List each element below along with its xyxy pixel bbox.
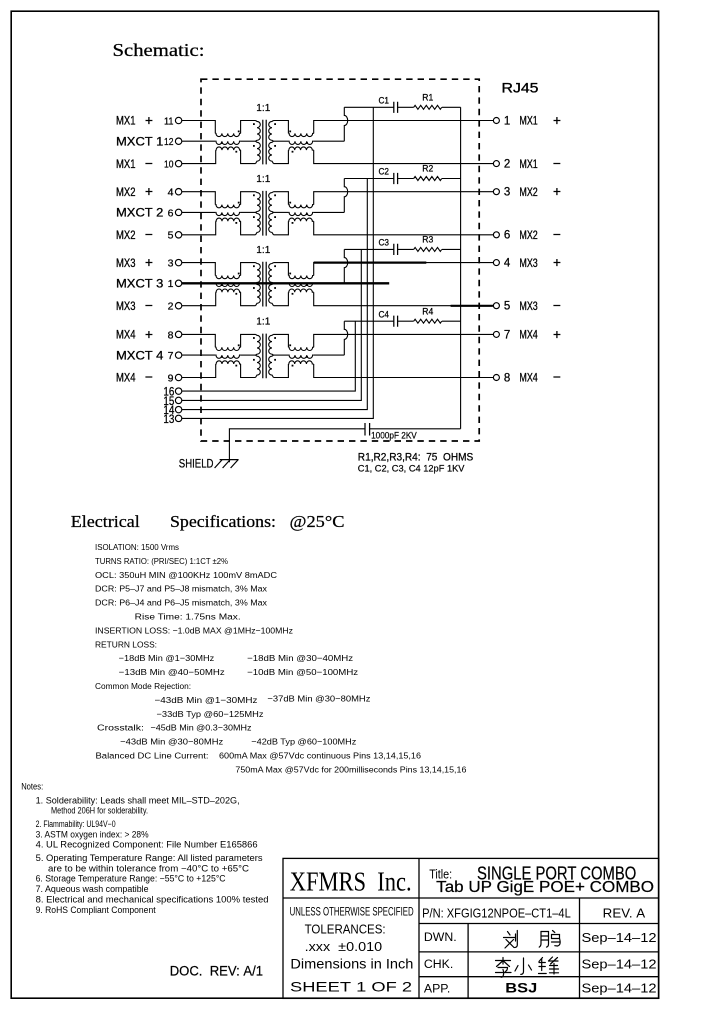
wire secondary top to choke	[274, 334, 289, 347]
wire secondary center tap to choke	[274, 140, 289, 142]
polarity dots transformer T1	[221, 123, 308, 152]
wire capacitor to shield	[229, 429, 365, 463]
pin 12 terminal (MXCT 1)	[164, 136, 182, 148]
svg-text:4: 4	[168, 187, 174, 199]
wire MX3+ input to choke	[182, 263, 215, 276]
svg-text:DOC. REV: A/1: DOC. REV: A/1	[170, 964, 263, 979]
svg-text:−45dB Min @0.3−30MHz: −45dB Min @0.3−30MHz	[151, 723, 252, 733]
wire choke center to primary center tap	[241, 282, 256, 284]
wire C4 to R4	[398, 320, 414, 322]
svg-text:R2: R2	[422, 164, 433, 174]
wire secondary center tap to choke	[274, 354, 289, 356]
transformer T4 secondary winding lower half	[269, 355, 274, 377]
svg-text:3: 3	[504, 187, 510, 199]
svg-text:TOLERANCES:: TOLERANCES:	[305, 921, 386, 936]
choke T3 secondary-side bottom winding	[288, 289, 313, 292]
wire C2 to R2	[398, 178, 414, 180]
label pin 6 MX2 −	[504, 227, 561, 242]
transformer T4 core	[263, 334, 266, 379]
svg-text:Notes:: Notes:	[21, 782, 43, 792]
svg-text:MX3: MX3	[519, 301, 537, 313]
svg-text:10: 10	[164, 159, 174, 171]
wire C3 to R3	[398, 248, 414, 250]
label pin 8 MX4 −	[504, 370, 561, 385]
transformer T1 secondary winding upper half	[269, 121, 274, 142]
svg-text:R3: R3	[422, 235, 433, 245]
heading Electrical Specifications @25C	[71, 512, 345, 531]
svg-text:750mA Max @57Vdc for 200millis: 750mA Max @57Vdc for 200milliseconds Pin…	[235, 764, 466, 774]
signature checked-by (Chinese characters)	[496, 957, 559, 977]
pin 2 terminal (MX3 −)	[168, 301, 182, 313]
wire R3 to common bus	[442, 248, 461, 250]
svg-text:+: +	[145, 184, 153, 199]
wire rail CH3 to capacitor C3	[344, 248, 394, 250]
pin 1 RJ45 terminal (MX1 +)	[493, 118, 499, 124]
svg-text:+: +	[145, 113, 153, 128]
wire secondary top to choke	[274, 192, 289, 205]
choke T3 primary-side center winding	[215, 283, 240, 286]
svg-text:P/N: XFGIG12NPOE–CT1–4L: P/N: XFGIG12NPOE–CT1–4L	[422, 907, 571, 921]
choke T3 primary-side bottom winding	[216, 289, 241, 292]
wire secondary center tap to riser	[314, 282, 345, 284]
svg-text:MXCT 4: MXCT 4	[116, 350, 164, 362]
pin 4 RJ45 terminal (MX3 +)	[493, 260, 499, 266]
svg-text:@25°C: @25°C	[290, 512, 345, 531]
wire center-tap bus CH3 down to pin 15	[182, 249, 361, 400]
choke T4 primary-side center winding	[215, 355, 240, 358]
wire secondary-choke top to RJ45 pin 1	[314, 121, 494, 134]
transformer T3 secondary winding lower half	[269, 283, 274, 305]
svg-text:MXCT 2: MXCT 2	[116, 208, 163, 220]
wire rail CH1 to capacitor C1	[344, 106, 394, 108]
svg-text:1:1: 1:1	[256, 316, 270, 328]
wire MXCT4 input to choke	[182, 354, 215, 356]
label pin 2 MX1 −	[504, 156, 561, 171]
resistor R2	[414, 177, 442, 181]
capacitor C2	[394, 173, 398, 184]
svg-text:9. RoHS Compliant Component: 9. RoHS Compliant Component	[36, 905, 157, 915]
pin 5 terminal (MX2 −)	[168, 230, 182, 242]
transformer T3 core	[263, 262, 266, 307]
svg-text:C4: C4	[379, 309, 390, 319]
wire R1 to common bus	[442, 106, 461, 108]
wire secondary-choke top to RJ45 pin 4	[314, 263, 494, 276]
svg-text:Sep–14–12: Sep–14–12	[582, 957, 657, 972]
wire MX1+ input to choke	[182, 121, 215, 134]
capacitor C4	[394, 316, 398, 327]
svg-text:XFMRS Inc.: XFMRS Inc.	[290, 866, 412, 896]
pin 8 terminal (MX4 +)	[168, 329, 182, 341]
transformer T2 core	[263, 191, 266, 236]
wire center-tap bus CH2 down to pin 14	[182, 179, 367, 410]
capacitor 1000pF 2KV	[365, 423, 370, 436]
wire center-tap riser CH1 with hop over pin wire	[344, 107, 347, 141]
wire secondary bottom to choke	[274, 364, 289, 378]
svg-text:6: 6	[504, 230, 510, 242]
svg-text:7. Aqueous wash compatible: 7. Aqueous wash compatible	[36, 884, 149, 894]
pin 16 terminal (center tap CH4)	[163, 387, 181, 399]
pin 3 terminal (MX3 +)	[168, 258, 182, 270]
wire MX2+ input to choke	[182, 192, 215, 205]
choke T4 secondary-side bottom winding	[288, 361, 313, 364]
svg-text:MX2: MX2	[116, 187, 136, 199]
wire MX4− input to choke	[182, 364, 216, 378]
wire common termination bus (right vertical)	[460, 107, 462, 429]
svg-text:.xxx ±0.010: .xxx ±0.010	[305, 940, 383, 954]
pin 6 RJ45 terminal (MX2 −)	[493, 232, 499, 238]
svg-text:MX1: MX1	[519, 159, 537, 171]
svg-text:−: −	[145, 370, 153, 385]
pin 2 RJ45 terminal (MX1 −)	[493, 161, 499, 167]
transformer T2 primary winding lower half	[256, 212, 261, 234]
transformer T1 secondary winding lower half	[269, 141, 274, 163]
wire secondary-choke top to RJ45 pin 3	[314, 192, 494, 205]
svg-text:−: −	[553, 370, 561, 385]
svg-text:REV. A: REV. A	[603, 907, 646, 921]
svg-text:MX1: MX1	[116, 159, 136, 171]
pin 14 terminal (center tap CH2)	[163, 405, 181, 417]
svg-text:Sep–14–12: Sep–14–12	[582, 930, 657, 945]
choke T1 secondary-side top winding	[288, 133, 313, 136]
label pin 5 MX3 −	[504, 298, 561, 313]
label MX1 − input	[116, 156, 153, 171]
choke T1 primary-side center winding	[215, 141, 240, 144]
svg-text:12: 12	[164, 136, 174, 148]
svg-text:C2: C2	[379, 167, 390, 177]
choke T2 primary-side top winding	[215, 205, 240, 208]
label pin 7 MX4 +	[504, 327, 561, 342]
wire center-tap bus CH1 down to pin 13	[182, 107, 373, 418]
choke T4 secondary-side top winding	[288, 347, 313, 350]
svg-text:MX4: MX4	[519, 373, 538, 385]
svg-text:5: 5	[504, 301, 510, 313]
transformer T1 primary winding lower half	[256, 141, 261, 163]
wire secondary bottom to choke	[274, 221, 289, 235]
svg-text:C1, C2, C3, C4 12pF 1KV: C1, C2, C3, C4 12pF 1KV	[358, 464, 465, 475]
svg-text:5. Operating Temperature Range: 5. Operating Temperature Range: All list…	[36, 853, 264, 863]
svg-text:1:1: 1:1	[256, 244, 270, 256]
choke T2 secondary-side top winding	[288, 205, 313, 208]
svg-text:are to be within tolerance fro: are to be within tolerance from −40°C to…	[48, 864, 250, 874]
transformer T1 primary winding upper half	[256, 121, 261, 142]
svg-text:8: 8	[168, 329, 174, 341]
wire choke center to primary center tap	[241, 354, 256, 356]
wire MX2− input to choke	[182, 221, 216, 235]
pin 9 terminal (MX4 −)	[168, 372, 182, 384]
polarity dots transformer T2	[221, 194, 308, 223]
svg-text:+: +	[553, 113, 561, 128]
wire choke top to primary winding	[241, 192, 256, 205]
part number text	[422, 907, 646, 921]
svg-text:CHK.: CHK.	[424, 957, 453, 971]
label pin 1 MX1 +	[504, 113, 561, 128]
wire MXCT3 input to choke	[182, 282, 215, 284]
pin 1 terminal (MXCT 3)	[168, 278, 182, 290]
svg-text:Tab UP GigE POE+ COMBO: Tab UP GigE POE+ COMBO	[436, 879, 654, 896]
wire R2 to common bus	[442, 178, 461, 180]
notes text block	[21, 782, 269, 915]
svg-text:7: 7	[168, 350, 174, 362]
label MX2 + input	[116, 184, 153, 199]
svg-text:MX2: MX2	[519, 230, 537, 242]
dashed schematic boundary box	[201, 79, 479, 441]
label MX4 + input	[116, 327, 153, 342]
wire secondary-choke bottom to RJ45 pin 6	[314, 221, 494, 235]
wire pin 4 segment (thick)	[314, 262, 427, 264]
transformer T3 primary winding upper half	[256, 263, 261, 284]
svg-text:+: +	[553, 327, 561, 342]
svg-text:C1: C1	[379, 96, 390, 106]
transformer T1 core	[263, 120, 266, 165]
wire secondary bottom to choke	[274, 150, 289, 164]
choke T2 primary-side center winding	[215, 212, 240, 215]
svg-text:SHEET 1 OF 2: SHEET 1 OF 2	[290, 979, 412, 995]
title text	[429, 864, 654, 896]
svg-text:−37dB Min @30−80MHz: −37dB Min @30−80MHz	[267, 694, 370, 704]
wire center-tap riser CH3 with hop over pin wire	[344, 249, 347, 283]
svg-text:BSJ: BSJ	[505, 979, 537, 995]
svg-text:MX4: MX4	[519, 330, 538, 342]
svg-text:MX2: MX2	[116, 230, 136, 242]
svg-text:3: 3	[168, 258, 174, 270]
svg-text:−18dB Min @1−30MHz: −18dB Min @1−30MHz	[119, 653, 215, 663]
svg-text:MX4: MX4	[116, 373, 136, 385]
svg-text:−10dB Min @50−100MHz: −10dB Min @50−100MHz	[247, 667, 358, 677]
label MX3 + input	[116, 255, 153, 270]
svg-text:3. ASTM oxygen index: > 28%: 3. ASTM oxygen index: > 28%	[36, 829, 149, 839]
wire choke bottom to primary winding	[241, 292, 256, 306]
wire choke center to primary center tap	[241, 211, 256, 213]
svg-text:−: −	[553, 227, 561, 242]
row CHK	[424, 957, 657, 972]
wire MXCT1 input to choke	[182, 140, 215, 142]
wire secondary top to choke	[274, 263, 289, 276]
svg-text:5: 5	[168, 230, 174, 242]
pin 11 terminal (MX1 +)	[164, 115, 182, 127]
choke T4 primary-side bottom winding	[216, 361, 241, 364]
svg-text:R1: R1	[422, 92, 433, 102]
pin 13 terminal (center tap CH1)	[163, 414, 181, 426]
wire choke top to primary winding	[241, 263, 256, 276]
svg-text:−: −	[145, 227, 153, 242]
svg-text:−43dB Min @1−30MHz: −43dB Min @1−30MHz	[155, 695, 258, 705]
label MX3 − input	[116, 298, 153, 313]
svg-text:DCR: P5–J7 and P5–J8 mismatch,: DCR: P5–J7 and P5–J8 mismatch, 3% Max	[95, 584, 268, 594]
svg-text:Rise Time: 1.75ns Max.: Rise Time: 1.75ns Max.	[135, 612, 241, 622]
choke T4 secondary-side center winding	[288, 355, 313, 358]
svg-text:−: −	[553, 298, 561, 313]
wire rail CH2 to capacitor C2	[344, 178, 394, 180]
svg-text:MX3: MX3	[116, 258, 136, 270]
label MX4 − input	[116, 370, 153, 385]
pin 8 RJ45 terminal (MX4 −)	[493, 375, 499, 381]
svg-text:MX3: MX3	[116, 301, 136, 313]
pin 10 terminal (MX1 −)	[164, 159, 182, 171]
wire MX3− input to choke	[182, 292, 216, 306]
wire secondary center tap to riser	[314, 354, 345, 356]
wire choke center to primary center tap	[241, 140, 256, 142]
svg-text:11: 11	[164, 115, 174, 127]
electrical specifications text block	[95, 542, 467, 774]
pin 5 RJ45 terminal (MX3 −)	[493, 303, 499, 309]
wire secondary-choke bottom to RJ45 pin 8	[314, 364, 494, 378]
svg-text:Sep–14–12: Sep–14–12	[582, 981, 657, 996]
svg-text:C3: C3	[379, 238, 390, 248]
svg-text:−: −	[145, 298, 153, 313]
svg-text:−: −	[553, 156, 561, 171]
wire choke bottom to primary winding	[241, 221, 256, 235]
wire MX4+ input to choke	[182, 334, 215, 347]
svg-text:−18dB Min @30−40MHz: −18dB Min @30−40MHz	[247, 653, 353, 663]
svg-text:−: −	[145, 156, 153, 171]
wire secondary center tap to riser	[314, 140, 345, 142]
row APP	[424, 979, 657, 995]
wire center-tap bus CH4 down to pin 16	[182, 321, 355, 391]
svg-text:RJ45: RJ45	[502, 81, 539, 96]
svg-text:600mA Max @57Vdc continuous Pi: 600mA Max @57Vdc continuous Pins 13,14,1…	[219, 751, 421, 761]
wire choke top to primary winding	[241, 121, 256, 134]
choke T3 secondary-side top winding	[288, 276, 313, 279]
svg-text:16: 16	[163, 387, 174, 399]
title block frame	[283, 858, 659, 998]
svg-text:9: 9	[168, 372, 174, 384]
svg-text:Crosstalk:: Crosstalk:	[97, 723, 144, 733]
svg-text:Common Mode Rejection:: Common Mode Rejection:	[95, 681, 191, 691]
svg-text:1000pF 2KV: 1000pF 2KV	[371, 431, 417, 442]
polarity dots transformer T4	[221, 337, 308, 366]
svg-text:6. Storage Temperature Range:: 6. Storage Temperature Range: −55°C to +…	[36, 874, 227, 884]
transformer T2 primary winding upper half	[256, 192, 261, 213]
transformer T4 primary winding lower half	[256, 355, 261, 377]
svg-text:2. Flammability: UL94V−0: 2. Flammability: UL94V−0	[36, 819, 116, 829]
wire secondary-choke top to RJ45 pin 7	[314, 334, 494, 347]
wire center-tap riser CH4 with hop over pin wire	[344, 321, 347, 355]
svg-text:Electrical: Electrical	[71, 512, 140, 531]
wire C1 to R1	[398, 106, 414, 108]
svg-text:2: 2	[504, 159, 510, 171]
svg-text:Dimensions in Inch: Dimensions in Inch	[290, 956, 413, 971]
choke T1 primary-side bottom winding	[216, 147, 241, 150]
choke T2 secondary-side center winding	[288, 212, 313, 215]
choke T3 primary-side top winding	[215, 276, 240, 279]
wire secondary center tap to choke	[274, 211, 289, 213]
svg-text:MXCT 3: MXCT 3	[116, 279, 163, 291]
pin 15 terminal (center tap CH3)	[163, 396, 181, 408]
pin 7 terminal (MXCT 4)	[168, 350, 182, 362]
chassis ground symbol	[215, 460, 239, 468]
svg-text:SHIELD: SHIELD	[179, 456, 214, 470]
svg-text:INSERTION LOSS: −1.0dB MAX @1M: INSERTION LOSS: −1.0dB MAX @1MHz−100MHz	[95, 625, 293, 635]
svg-text:Method 206H for solderability.: Method 206H for solderability.	[51, 805, 148, 815]
wire MX1− input to choke	[182, 150, 216, 164]
label pin 4 MX3 +	[504, 255, 561, 270]
svg-text:R1,R2,R3,R4: 75 OHMS: R1,R2,R3,R4: 75 OHMS	[358, 451, 474, 463]
svg-text:OCL: 350uH MIN @100KHz 100mV 8: OCL: 350uH MIN @100KHz 100mV 8mADC	[95, 570, 277, 580]
wire rail CH4 to capacitor C4	[344, 320, 394, 322]
svg-text:6: 6	[168, 207, 174, 219]
svg-text:1: 1	[168, 278, 174, 290]
wire MXCT2 input to choke	[182, 211, 215, 213]
svg-text:+: +	[145, 327, 153, 342]
choke T1 secondary-side bottom winding	[288, 147, 313, 150]
transformer T4 secondary winding upper half	[269, 334, 274, 355]
svg-text:1:1: 1:1	[256, 102, 270, 114]
wire choke bottom to primary winding	[241, 364, 256, 378]
choke T1 primary-side top winding	[215, 133, 240, 136]
wire choke bottom to primary winding	[241, 150, 256, 164]
transformer T2 secondary winding lower half	[269, 212, 274, 234]
svg-text:7: 7	[504, 329, 510, 341]
svg-text:MX2: MX2	[519, 187, 537, 199]
svg-text:MX4: MX4	[116, 330, 136, 342]
pin 6 terminal (MXCT 2)	[168, 207, 182, 219]
wire pin 5 segment (thick)	[451, 305, 493, 307]
svg-text:DWN.: DWN.	[424, 930, 457, 944]
svg-text:−42dB Typ @60−100MHz: −42dB Typ @60−100MHz	[251, 737, 356, 747]
wire secondary bottom to choke	[274, 292, 289, 306]
transformer T3 primary winding lower half	[256, 283, 261, 305]
wire secondary-choke bottom to RJ45 pin 5	[314, 292, 494, 306]
wire secondary top to choke	[274, 121, 289, 134]
wire secondary-choke bottom to RJ45 pin 2	[314, 150, 494, 164]
svg-text:8: 8	[504, 372, 510, 384]
svg-text:Schematic:: Schematic:	[113, 40, 205, 60]
svg-text:MX3: MX3	[519, 258, 537, 270]
row DWN	[424, 930, 657, 945]
svg-text:R4: R4	[422, 306, 433, 316]
pin 3 RJ45 terminal (MX2 +)	[493, 189, 499, 195]
label MX2 − input	[116, 227, 153, 242]
wire choke top to primary winding	[241, 334, 256, 347]
resistor R1	[414, 105, 442, 109]
wire secondary center tap to riser	[314, 211, 345, 213]
svg-text:2: 2	[168, 301, 174, 313]
transformer T3 secondary winding upper half	[269, 263, 274, 284]
svg-text:+: +	[553, 255, 561, 270]
label MX1 + input	[116, 113, 153, 128]
svg-text:−43dB Min @30−80MHz: −43dB Min @30−80MHz	[120, 737, 223, 747]
pin 4 terminal (MX2 +)	[168, 187, 182, 199]
wire MXCT 3 (thick)	[182, 282, 389, 284]
svg-text:+: +	[553, 184, 561, 199]
choke T2 primary-side bottom winding	[216, 218, 241, 221]
capacitor C1	[394, 102, 398, 113]
svg-text:MX1: MX1	[519, 116, 537, 128]
svg-text:1. Solderability: Leads shall: 1. Solderability: Leads shall meet MIL–S…	[36, 796, 240, 806]
svg-text:MXCT 1: MXCT 1	[116, 136, 163, 148]
svg-text:+: +	[145, 255, 153, 270]
choke T1 secondary-side center winding	[288, 141, 313, 144]
svg-text:1:1: 1:1	[256, 173, 270, 185]
choke T3 secondary-side center winding	[288, 283, 313, 286]
svg-text:DCR: P6–J4 and P6–J5 mismatch,: DCR: P6–J4 and P6–J5 mismatch, 3% Max	[95, 598, 268, 608]
wire R4 to common bus	[442, 320, 461, 322]
svg-text:1: 1	[504, 115, 510, 127]
wire secondary center tap to choke	[274, 282, 289, 284]
svg-text:−13dB Min @40−50MHz: −13dB Min @40−50MHz	[119, 667, 225, 677]
signature drawn-by (Chinese characters)	[504, 931, 561, 949]
transformer T4 primary winding upper half	[256, 334, 261, 355]
polarity dots transformer T3	[221, 265, 308, 294]
choke T4 primary-side top winding	[215, 347, 240, 350]
wire bus to capacitor 1000pF	[370, 428, 461, 430]
svg-text:Specifications:: Specifications:	[170, 512, 276, 531]
svg-text:−33dB Typ @60−125MHz: −33dB Typ @60−125MHz	[157, 709, 264, 719]
svg-text:4. UL Recognized Component: Fi: 4. UL Recognized Component: File Number …	[36, 839, 258, 849]
svg-text:MX1: MX1	[116, 116, 136, 128]
svg-text:8. Electrical and mechanical s: 8. Electrical and mechanical specificati…	[36, 895, 269, 905]
svg-text:TURNS RATIO: (PRI/SEC) 1:1CT ±: TURNS RATIO: (PRI/SEC) 1:1CT ±2%	[95, 556, 228, 566]
